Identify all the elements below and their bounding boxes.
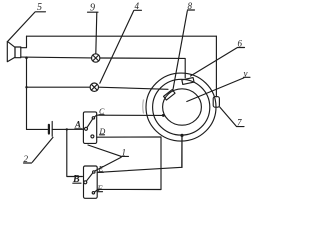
node junction lamp2 row bbox=[25, 86, 27, 88]
switch box A bbox=[83, 112, 96, 143]
leader 4 bbox=[100, 11, 134, 84]
drum outer circle bbox=[146, 73, 216, 141]
loudspeaker 5 driver bbox=[15, 47, 21, 58]
svg-text:5: 5 bbox=[37, 2, 42, 13]
scan smudge near drum left bbox=[142, 100, 145, 113]
svg-text:1: 1 bbox=[122, 147, 127, 157]
electrode left rect bbox=[164, 90, 176, 100]
wire E row bbox=[97, 135, 182, 172]
svg-text:B: B bbox=[72, 174, 80, 185]
wire lamp2 row left bbox=[27, 86, 91, 88]
wire lamp2 row right bbox=[99, 87, 169, 89]
leader 2 bbox=[32, 137, 53, 162]
leader 3 bbox=[187, 78, 244, 102]
switch lever A bbox=[87, 119, 93, 128]
svg-text:7: 7 bbox=[237, 118, 242, 128]
contact pivot A bbox=[85, 127, 88, 130]
wire battery row right bbox=[52, 128, 82, 130]
drum middle circle bbox=[153, 79, 210, 135]
svg-text:D: D bbox=[99, 127, 106, 136]
wire drum bottom vertical bbox=[181, 135, 183, 167]
wire lamp1 row left bbox=[21, 56, 92, 59]
contact E bbox=[93, 171, 95, 173]
leader 8 bbox=[173, 11, 188, 91]
wire branch to switch B bbox=[67, 129, 83, 176]
contact A upper bbox=[92, 117, 94, 119]
leader 7 bbox=[220, 107, 237, 126]
wire F row bbox=[97, 188, 161, 190]
underline 6 bbox=[238, 47, 245, 49]
leader 5 bbox=[8, 12, 35, 41]
wire right vertical bbox=[215, 36, 217, 97]
underline 1 bbox=[121, 155, 129, 157]
svg-text:у: у bbox=[243, 68, 248, 78]
underline 8 bbox=[188, 9, 195, 11]
lamp 9 bbox=[92, 54, 100, 62]
drum inner circle bbox=[163, 89, 202, 125]
contact F bbox=[92, 192, 94, 194]
wire contact to C exit bbox=[94, 115, 96, 117]
wire top row bbox=[27, 35, 217, 37]
lamp 4 bbox=[90, 83, 98, 91]
contact pivot B bbox=[84, 181, 87, 184]
electrode 8 top rect bbox=[182, 78, 194, 85]
brush 7 right rect bbox=[213, 97, 219, 108]
underline E bbox=[99, 171, 104, 173]
wire C row bbox=[97, 114, 164, 116]
svg-text:8: 8 bbox=[188, 1, 193, 11]
wire left vertical bbox=[26, 57, 28, 129]
underline B bbox=[73, 182, 81, 184]
underline 9 bbox=[88, 11, 99, 13]
svg-text:4: 4 bbox=[135, 1, 140, 11]
underline 3 bbox=[244, 76, 251, 78]
underline C bbox=[99, 114, 104, 116]
leader 6 bbox=[191, 48, 238, 76]
contact D bbox=[91, 135, 94, 138]
underline F bbox=[98, 191, 103, 193]
leader 1 lower bbox=[95, 157, 121, 171]
svg-text:2: 2 bbox=[24, 154, 29, 164]
switch box B bbox=[84, 166, 98, 198]
node drum bottom tap bbox=[180, 134, 183, 137]
switch lever B bbox=[86, 173, 92, 181]
node C wire to inner circle bbox=[162, 114, 165, 117]
underline A bbox=[75, 128, 82, 130]
node battery branch junction bbox=[66, 128, 68, 130]
leader 1 upper bbox=[88, 145, 121, 156]
underline 2 bbox=[24, 162, 32, 164]
node junction speaker bottom bbox=[25, 56, 28, 59]
leader 9 bbox=[96, 13, 97, 54]
wire lamp1 row right bbox=[100, 58, 185, 78]
underline 4 bbox=[135, 9, 142, 11]
battery 2 thick plate bbox=[48, 125, 50, 134]
wire speaker top terminal bbox=[21, 36, 27, 48]
battery 2 thin plate bbox=[51, 122, 53, 137]
loudspeaker 5 cone bbox=[7, 41, 15, 61]
svg-text:A: A bbox=[74, 120, 81, 130]
svg-text:C: C bbox=[99, 107, 105, 116]
svg-text:6: 6 bbox=[238, 39, 243, 49]
svg-text:9: 9 bbox=[90, 3, 95, 14]
underline D bbox=[100, 134, 105, 136]
underline 5 bbox=[36, 11, 46, 13]
wire D row bbox=[97, 137, 161, 190]
svg-text:E: E bbox=[98, 164, 104, 173]
underline 7 bbox=[237, 126, 245, 128]
svg-text:F: F bbox=[97, 184, 103, 193]
wire battery row left bbox=[27, 128, 48, 130]
